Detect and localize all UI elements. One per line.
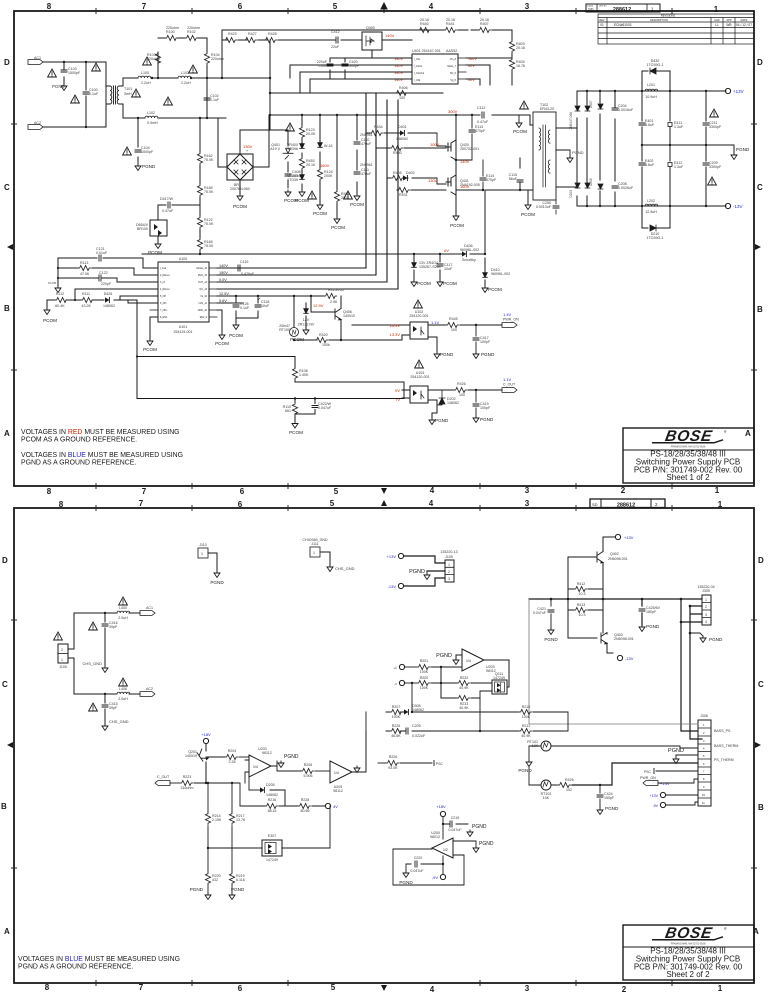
svg-text:BR100: BR100 xyxy=(137,227,148,231)
svg-text:140510: 140510 xyxy=(343,314,355,318)
junction dots secondary xyxy=(586,90,707,207)
resistor R214 xyxy=(205,783,221,825)
thermistor RT100 xyxy=(279,324,298,337)
svg-text:PGND: PGND xyxy=(605,806,619,811)
resistor R206 xyxy=(301,763,330,778)
svg-text:L102: L102 xyxy=(147,111,155,115)
svg-text:40.9K: 40.9K xyxy=(459,706,469,710)
svg-text:R216: R216 xyxy=(268,798,277,802)
svg-text:DATE: DATE xyxy=(741,18,748,22)
svg-text:PGND: PGND xyxy=(572,150,584,155)
svg-text:+13V: +13V xyxy=(650,794,659,798)
svg-text:5_OP: 5_OP xyxy=(160,295,167,298)
svg-text:4: 4 xyxy=(429,499,434,508)
op-amp U203b xyxy=(245,747,272,783)
svg-text:5: 5 xyxy=(331,983,336,992)
wire J306 pin1 xyxy=(529,599,698,724)
svg-text:PGND: PGND xyxy=(709,637,723,642)
wire top chain xyxy=(222,30,512,85)
svg-text:R425/255: R425/255 xyxy=(328,288,344,292)
resistor R207 xyxy=(390,705,403,719)
svg-text:EN2_9: EN2_9 xyxy=(200,316,208,319)
ground PGND RT101 xyxy=(518,760,532,773)
grid numbers bottom sheet1 xyxy=(47,486,720,496)
svg-text:CHK: CHK xyxy=(714,18,720,22)
svg-text:PGND: PGND xyxy=(668,748,684,754)
svg-text:C412: C412 xyxy=(331,30,340,34)
svg-text:6: 6 xyxy=(703,762,705,766)
svg-text:1/4: 1/4 xyxy=(334,771,339,775)
svg-text:PGND: PGND xyxy=(480,417,494,422)
capacitor C103 xyxy=(61,67,81,75)
svg-text:6_OP-: 6_OP- xyxy=(160,302,167,305)
svg-text:5.906: 5.906 xyxy=(304,774,313,778)
svg-text:470pF: 470pF xyxy=(486,178,497,182)
MOSFET Q431 xyxy=(446,160,480,195)
svg-text:6.116: 6.116 xyxy=(236,878,245,882)
wire J100 lower xyxy=(68,658,140,724)
capacitor C412 xyxy=(331,30,340,49)
svg-text:1: 1 xyxy=(714,5,719,14)
svg-text:J110: J110 xyxy=(199,543,207,547)
svg-text:4_Rtimer: 4_Rtimer xyxy=(160,288,170,291)
svg-text:1500pF: 1500pF xyxy=(68,71,81,75)
svg-text:2.0uH: 2.0uH xyxy=(118,697,128,701)
resistor R426s xyxy=(442,382,502,397)
capacitor C204 xyxy=(612,104,634,112)
svg-text:470pF: 470pF xyxy=(475,129,486,133)
warning triangle +13 xyxy=(710,109,719,117)
warning triangles input area xyxy=(48,69,57,77)
svg-text:60.4K: 60.4K xyxy=(55,304,65,308)
wire U101 right nets xyxy=(217,268,410,341)
svg-text:3: 3 xyxy=(525,984,530,993)
svg-text:102: 102 xyxy=(566,788,572,792)
svg-text:10uF: 10uF xyxy=(444,267,453,271)
wire gate rows xyxy=(366,133,446,190)
svg-text:LVG_11: LVG_11 xyxy=(199,302,208,305)
svg-text:3_CI: 3_CI xyxy=(160,281,165,284)
svg-text:2.196: 2.196 xyxy=(212,818,221,822)
svg-text:PSC: PSC xyxy=(644,770,652,774)
terminal -13V pushpull xyxy=(617,655,633,661)
svg-text:7_OP+: 7_OP+ xyxy=(160,309,168,312)
svg-text:PCOM: PCOM xyxy=(289,430,303,435)
svg-text:5.6uF: 5.6uF xyxy=(645,123,655,127)
svg-text:VOLTAGES IN RED MUST BE MEASUR: VOLTAGES IN RED MUST BE MEASURED USING xyxy=(21,429,180,436)
transistor Q403 xyxy=(601,633,634,654)
svg-text:96096L-002: 96096L-002 xyxy=(460,248,479,252)
svg-text:300V: 300V xyxy=(448,109,458,114)
wire U401 left nets xyxy=(270,40,512,130)
resistor R166 xyxy=(197,238,214,251)
svg-text:AC1: AC1 xyxy=(146,606,153,610)
resistor R435 xyxy=(391,171,404,181)
connector J100 xyxy=(54,632,68,669)
svg-text:9V: 9V xyxy=(395,388,400,393)
svg-text:1/4: 1/4 xyxy=(253,765,258,769)
svg-text:0.047uF: 0.047uF xyxy=(533,611,547,615)
ground PGND U203a xyxy=(436,653,459,665)
thyristor Q401 xyxy=(270,143,293,159)
svg-text:D: D xyxy=(4,58,10,67)
wire opamp inputs xyxy=(431,655,462,698)
svg-text:0.022uF: 0.022uF xyxy=(412,734,426,738)
svg-text:C: C xyxy=(757,183,763,192)
svg-text:I_Css: I_Css xyxy=(160,267,167,270)
ground PGND R220 xyxy=(190,885,211,900)
svg-text:Sheet 2 of 2: Sheet 2 of 2 xyxy=(666,970,710,979)
ground PGND J306 pin5 xyxy=(668,748,698,764)
svg-text:8: 8 xyxy=(703,777,705,781)
resistor R453 xyxy=(299,157,316,170)
svg-text:PCOM: PCOM xyxy=(521,212,535,217)
svg-text:254119-001: 254119-001 xyxy=(174,330,193,334)
terminal -9V J306 xyxy=(652,802,698,808)
svg-text:D401: D401 xyxy=(398,125,407,129)
svg-text:C_OUT: C_OUT xyxy=(503,383,516,387)
svg-text:4V: 4V xyxy=(333,804,338,809)
ground CHS_GND C416 xyxy=(82,661,108,673)
svg-text:20.16: 20.16 xyxy=(480,18,489,22)
resistor R165 xyxy=(197,184,214,197)
svg-text:C122: C122 xyxy=(99,271,108,275)
svg-text:+V: +V xyxy=(393,666,397,670)
capacitor C115 xyxy=(509,173,523,182)
wire U205 out xyxy=(352,731,366,772)
ground PCOM D410 xyxy=(482,286,502,293)
svg-text:R412: R412 xyxy=(577,582,586,586)
svg-text:0.01uF: 0.01uF xyxy=(96,251,108,255)
column ticks top/bottom sheet1 xyxy=(11,8,757,489)
svg-text:R223: R223 xyxy=(183,775,192,779)
wire HV rail xyxy=(270,115,533,203)
svg-text:2N6447-066: 2N6447-066 xyxy=(569,112,573,130)
capacitor E402 xyxy=(639,145,655,206)
tag PSC J306 xyxy=(644,769,698,775)
svg-text:PCOM: PCOM xyxy=(350,202,364,207)
svg-text:20.1K: 20.1K xyxy=(306,163,316,167)
capacitor C111 xyxy=(354,163,373,176)
resistor R208 xyxy=(378,755,399,770)
svg-text:316ohm: 316ohm xyxy=(181,786,194,790)
svg-text:PCOM: PCOM xyxy=(215,341,229,346)
connector C_OUT sheet2 xyxy=(155,775,170,785)
svg-text:PGND: PGND xyxy=(435,418,449,423)
capacitor E113 xyxy=(456,115,486,160)
svg-text:I_Vss: I_Vss xyxy=(414,58,421,61)
svg-text:VOLTAGES IN BLUE MUST BE MEASU: VOLTAGES IN BLUE MUST BE MEASURED USING xyxy=(21,452,183,459)
svg-text:C: C xyxy=(758,680,764,689)
resistor R412 xyxy=(574,582,587,596)
svg-text:140V: 140V xyxy=(385,33,395,38)
connector J306 xyxy=(698,714,738,806)
svg-text:0.9mH: 0.9mH xyxy=(147,121,158,125)
connector AC1 sheet2 xyxy=(140,606,155,615)
transistor Q402 xyxy=(597,537,628,570)
svg-text:R428: R428 xyxy=(268,32,277,36)
svg-text:3: 3 xyxy=(525,2,530,11)
svg-text:661: 661 xyxy=(285,409,291,413)
svg-text:-13V: -13V xyxy=(733,204,743,209)
svg-text:D426: D426 xyxy=(104,292,113,296)
ground PGND J305 xyxy=(690,633,723,643)
svg-text:R423: R423 xyxy=(228,32,237,36)
capacitor C415 xyxy=(89,702,118,711)
svg-text:PGND: PGND xyxy=(518,768,532,773)
capacitor C102 xyxy=(204,94,220,102)
svg-text:A19 V: A19 V xyxy=(270,147,280,151)
svg-text:2: 2 xyxy=(655,502,658,507)
svg-text:2_Rtimer: 2_Rtimer xyxy=(160,274,170,277)
ground CHS_GND C415 xyxy=(102,719,129,731)
svg-text:40.9K: 40.9K xyxy=(521,734,531,738)
svg-text:40.9K: 40.9K xyxy=(459,686,469,690)
svg-text:140V: 140V xyxy=(219,264,228,268)
svg-text:75.0K: 75.0K xyxy=(204,244,214,248)
svg-text:-13V: -13V xyxy=(625,656,634,661)
svg-text:D: D xyxy=(758,556,764,565)
svg-text:D206: D206 xyxy=(589,178,593,186)
svg-text:7: 7 xyxy=(139,499,144,508)
resistor R232 xyxy=(457,676,492,690)
svg-text:L201: L201 xyxy=(647,83,655,87)
ground PGND C104 xyxy=(135,164,156,171)
diode D401 xyxy=(396,125,408,141)
resistor R204 xyxy=(206,749,249,764)
warning triangles PFC xyxy=(286,123,295,131)
svg-text:+13V: +13V xyxy=(624,535,634,540)
svg-text:147249: 147249 xyxy=(266,858,278,862)
transistor Q211 xyxy=(492,672,507,694)
svg-text:2.2uH: 2.2uH xyxy=(141,81,151,85)
svg-text:1.3uF: 1.3uF xyxy=(674,165,684,169)
ground PGND C424 xyxy=(597,806,619,815)
connector PWR_ON sheet2 xyxy=(640,776,698,786)
ground PCOM C126 xyxy=(229,323,243,338)
ground PCOM C111 xyxy=(350,194,364,207)
svg-text:88.1k: 88.1k xyxy=(268,809,277,813)
svg-text:4: 4 xyxy=(429,2,434,11)
svg-text:R431: R431 xyxy=(399,193,408,197)
ground PGND U205 xyxy=(352,766,360,773)
capacitor C400 xyxy=(317,60,333,68)
svg-text:12V: 12V xyxy=(303,318,310,322)
svg-text:Schottky: Schottky xyxy=(462,258,476,262)
svg-text:B: B xyxy=(757,305,763,314)
connector C_OUT xyxy=(502,377,517,392)
warning triangle -13 xyxy=(708,177,717,185)
svg-text:1500pF: 1500pF xyxy=(141,150,154,154)
wire U200 loop xyxy=(393,849,464,885)
capacitor C118 xyxy=(255,298,270,308)
svg-text:®: ® xyxy=(724,927,727,931)
svg-text:J105: J105 xyxy=(445,555,453,559)
resistor R225 xyxy=(390,724,403,738)
svg-text:6: 6 xyxy=(238,2,243,11)
svg-text:1: 1 xyxy=(705,598,707,602)
resistor R406 xyxy=(395,86,408,100)
red labels U101 xyxy=(219,264,229,303)
svg-text:R228: R228 xyxy=(301,798,310,802)
svg-text:R204: R204 xyxy=(228,749,237,753)
svg-text:10.3: 10.3 xyxy=(579,592,586,596)
title block sheet1 xyxy=(623,428,754,483)
capacitor C208 xyxy=(612,182,634,190)
svg-text:130V: 130V xyxy=(428,178,438,183)
svg-text:0.047uF: 0.047uF xyxy=(410,869,424,873)
resistor R200 xyxy=(405,676,430,690)
svg-text:13.76: 13.76 xyxy=(236,818,245,822)
svg-text:47.06: 47.06 xyxy=(80,272,89,276)
ground PCOM R132 xyxy=(43,308,57,323)
svg-text:8: 8 xyxy=(47,2,52,11)
svg-text:ECN#61003: ECN#61003 xyxy=(614,23,632,27)
diode D206 xyxy=(598,184,603,189)
svg-text:8: 8 xyxy=(59,500,64,509)
svg-text:3mH: 3mH xyxy=(124,92,132,96)
resistor R413 xyxy=(574,603,587,617)
resistor R210 xyxy=(519,705,532,719)
wire gate drive bundle xyxy=(217,93,398,289)
diode D407 xyxy=(598,104,603,109)
svg-text:39pF: 39pF xyxy=(109,706,118,710)
svg-text:PCOM: PCOM xyxy=(43,318,57,323)
resistor R445 xyxy=(438,317,502,332)
inductor L100 xyxy=(138,71,151,85)
svg-text:150pF: 150pF xyxy=(604,796,615,800)
svg-text:CLASS: CLASS xyxy=(587,5,594,8)
capacitor C126 xyxy=(233,302,250,310)
svg-text:AC2: AC2 xyxy=(146,687,153,691)
svg-text:BASS_PS: BASS_PS xyxy=(714,729,731,733)
resistor R113 xyxy=(78,261,91,276)
warning triangle U103 xyxy=(410,360,429,379)
svg-text:20.16: 20.16 xyxy=(446,18,455,22)
inductor L201 xyxy=(645,83,658,99)
svg-text:+13V: +13V xyxy=(733,89,744,94)
svg-text:PGND: PGND xyxy=(231,887,245,892)
svg-text:10uF: 10uF xyxy=(261,304,270,308)
svg-text:BASS_THERM: BASS_THERM xyxy=(714,744,738,748)
svg-text:7: 7 xyxy=(142,2,147,11)
svg-text:D402: D402 xyxy=(406,171,415,175)
resistor R122 xyxy=(197,216,214,229)
op-amp U200 xyxy=(430,831,453,858)
capacitor C209 xyxy=(703,145,722,206)
svg-text:R435: R435 xyxy=(393,171,402,175)
wire J110 xyxy=(208,553,217,571)
resistor R100 xyxy=(165,26,179,41)
svg-text:REV: REV xyxy=(599,18,605,22)
wire T102 primary bottom xyxy=(485,125,533,254)
svg-text:10.3: 10.3 xyxy=(579,613,586,617)
diode D410 xyxy=(483,268,510,277)
wire mid rail xyxy=(642,145,734,153)
svg-text:R201: R201 xyxy=(420,659,429,663)
svg-text:SD: SD xyxy=(592,502,598,507)
inductor L202 xyxy=(645,199,658,214)
svg-text:APP: APP xyxy=(726,18,731,22)
ground PCOM BR1 xyxy=(233,180,247,209)
svg-text:20.0K: 20.0K xyxy=(306,132,316,136)
resistor R430 xyxy=(390,145,403,155)
svg-text:AC1: AC1 xyxy=(34,56,41,60)
warning triangle U102 xyxy=(409,300,428,318)
resistor R425 xyxy=(324,288,344,304)
svg-text:+18V: +18V xyxy=(201,732,211,737)
optocoupler U102 xyxy=(352,320,440,352)
svg-text:PGND AS A GROUND REFERENCE.: PGND AS A GROUND REFERENCE. xyxy=(21,460,136,467)
grid letters sheet1 xyxy=(4,58,763,438)
ground PCOM ZR404 xyxy=(411,280,431,287)
svg-text:22uF: 22uF xyxy=(331,45,340,49)
svg-text:1: 1 xyxy=(718,984,723,993)
resistor R201 xyxy=(405,659,430,674)
ground PGND C417 xyxy=(473,352,495,359)
svg-text:98112: 98112 xyxy=(262,751,272,755)
capacitor C420 xyxy=(342,60,360,68)
resistor R428 xyxy=(264,32,277,43)
wire J306 pin4 xyxy=(552,746,698,748)
svg-text:R113: R113 xyxy=(80,261,88,265)
svg-text:10K: 10K xyxy=(543,796,550,800)
svg-text:A: A xyxy=(4,927,10,936)
svg-text:B: B xyxy=(1,802,7,811)
svg-text:1TO39G-1: 1TO39G-1 xyxy=(647,236,664,240)
svg-text:-9V: -9V xyxy=(432,875,439,880)
terminal input V2 xyxy=(394,680,405,686)
svg-text:RVG_15: RVG_15 xyxy=(198,274,208,277)
terminal -13V xyxy=(725,203,742,209)
svg-text:L100: L100 xyxy=(141,71,149,75)
svg-text:DESCRIPTION: DESCRIPTION xyxy=(650,18,668,22)
svg-text:1.1V: 1.1V xyxy=(503,377,512,382)
diode D305 xyxy=(404,704,424,715)
svg-text:LL: LL xyxy=(715,23,719,27)
svg-text:1: 1 xyxy=(313,551,315,555)
svg-text:130V: 130V xyxy=(243,144,253,149)
ground PCOM C117 xyxy=(437,280,457,287)
svg-text:148062: 148062 xyxy=(103,304,115,308)
resistor R123 xyxy=(299,126,316,139)
svg-text:0.47uF: 0.47uF xyxy=(162,209,174,213)
svg-text:J306: J306 xyxy=(700,714,708,718)
capacitor C119 xyxy=(238,260,255,276)
svg-text:148062: 148062 xyxy=(266,793,278,797)
svg-text:C119: C119 xyxy=(240,260,248,264)
svg-text:R407: R407 xyxy=(480,22,489,26)
svg-text:R111: R111 xyxy=(82,292,90,296)
svg-text:Q402: Q402 xyxy=(610,552,619,556)
svg-text:PGND: PGND xyxy=(190,887,204,892)
svg-text:L202: L202 xyxy=(647,199,655,203)
svg-text:PCOM: PCOM xyxy=(313,211,327,216)
svg-text:100V: 100V xyxy=(430,142,440,147)
inductor L103 xyxy=(178,71,191,85)
svg-text:I_Vdd: I_Vdd xyxy=(414,79,421,82)
svg-text:5.6V: 5.6V xyxy=(219,299,227,303)
svg-text:0V: 0V xyxy=(444,248,449,253)
svg-text:2: 2 xyxy=(621,486,626,495)
svg-text:PWR_ON: PWR_ON xyxy=(503,318,519,322)
svg-text:8_EN1: 8_EN1 xyxy=(160,316,168,319)
svg-text:2N6098-001: 2N6098-001 xyxy=(614,637,634,641)
svg-text:5: 5 xyxy=(703,754,705,758)
svg-text:200K: 200K xyxy=(324,174,333,178)
terminal +13V J105 xyxy=(387,553,404,559)
resistor R440 xyxy=(418,18,431,33)
